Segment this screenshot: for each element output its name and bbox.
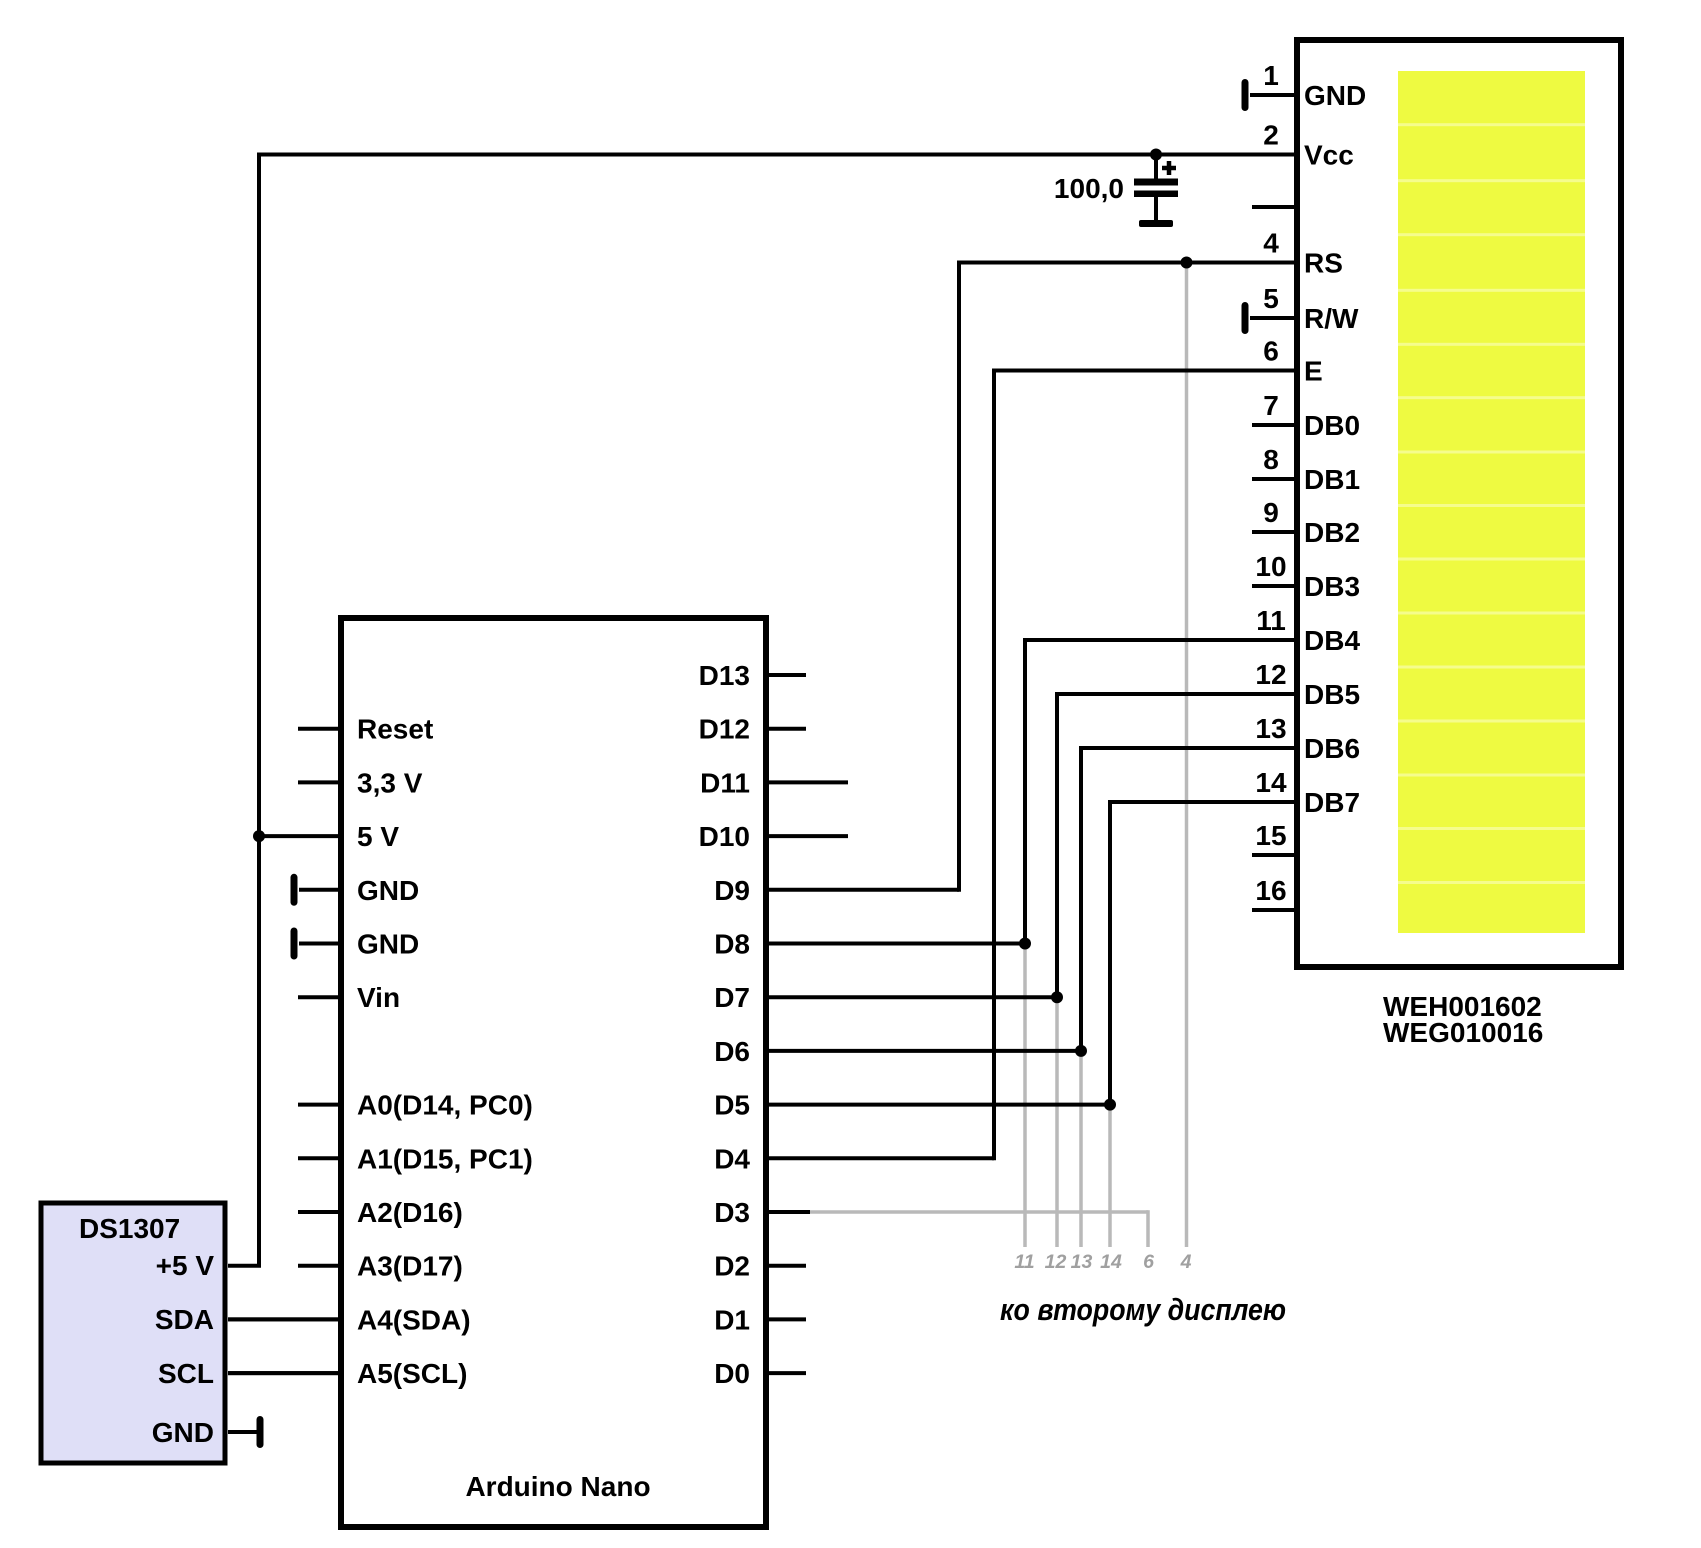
svg-text:2: 2 [1263, 120, 1279, 151]
svg-text:DB1: DB1 [1304, 464, 1360, 495]
pin 9 stub [1252, 530, 1296, 534]
svg-text:A5(SCL): A5(SCL) [357, 1358, 467, 1389]
wire gray vertical 12 [1055, 997, 1059, 1247]
pin 3,3 V stub [298, 780, 341, 784]
svg-text:5 V: 5 V [357, 821, 399, 852]
wire D8 vertical to DB4 [1023, 638, 1027, 944]
display module WEH001602 [1297, 40, 1621, 967]
wire D4 horizontal [769, 1156, 994, 1160]
pin 5 stub [1250, 316, 1296, 320]
svg-text:GND: GND [357, 929, 419, 960]
svg-text:D0: D0 [714, 1358, 750, 1389]
node D7 junction [1051, 991, 1063, 1003]
svg-text:D9: D9 [714, 875, 750, 906]
pin 15 stub [1252, 853, 1296, 857]
svg-text:D3: D3 [714, 1197, 750, 1228]
svg-text:DB3: DB3 [1304, 571, 1360, 602]
svg-text:DB4: DB4 [1304, 625, 1360, 656]
svg-text:D8: D8 [714, 929, 750, 960]
capacitor C1 bottom plate [1134, 191, 1178, 198]
svg-text:GND: GND [1304, 80, 1366, 111]
svg-text:D5: D5 [714, 1090, 750, 1121]
svg-text:A2(D16): A2(D16) [357, 1197, 463, 1228]
pin A2(D16) stub [298, 1210, 341, 1214]
node RS / second display 4 [1181, 257, 1193, 269]
node Vcc/C1 junction [1150, 149, 1162, 161]
wire D5 horizontal [769, 1103, 1110, 1107]
svg-text:6: 6 [1263, 336, 1279, 367]
wire +5V vertical rail [257, 153, 261, 1268]
svg-text:A4(SDA): A4(SDA) [357, 1304, 471, 1335]
svg-text:DB7: DB7 [1304, 787, 1360, 818]
svg-text:+5 V: +5 V [156, 1250, 215, 1281]
svg-text:D4: D4 [714, 1143, 750, 1174]
ground symbol Arduino GND [291, 928, 298, 960]
capacitor C1 negative lead [1154, 197, 1158, 221]
wire gray vertical 4 from RS node [1185, 263, 1189, 1248]
pin D1 stub [769, 1317, 806, 1321]
node D5 junction [1104, 1099, 1116, 1111]
wire D7 horizontal [769, 995, 1057, 999]
polarity plus sign [1162, 161, 1176, 175]
svg-text:SCL: SCL [158, 1358, 214, 1389]
svg-text:14: 14 [1255, 767, 1287, 798]
svg-text:SDA: SDA [155, 1304, 214, 1335]
svg-text:DB0: DB0 [1304, 410, 1360, 441]
svg-text:6: 6 [1143, 1251, 1154, 1273]
svg-text:DB5: DB5 [1304, 679, 1360, 710]
svg-text:Arduino Nano: Arduino Nano [465, 1471, 650, 1502]
wire D7 vertical to DB5 [1055, 692, 1059, 997]
capacitor C1 top plate [1134, 179, 1178, 186]
svg-text:D13: D13 [699, 660, 750, 691]
pin GND stub [299, 888, 341, 892]
svg-text:Vin: Vin [357, 982, 400, 1013]
ground symbol pin 1 [1242, 79, 1249, 111]
wire SDA [228, 1317, 341, 1321]
pin Vin stub [298, 995, 341, 999]
pin GND stub [299, 942, 341, 946]
wire DB4 horizontal into display [1025, 638, 1296, 642]
svg-text:9: 9 [1263, 497, 1279, 528]
wire D9 horizontal [769, 888, 959, 892]
wire D5 vertical to DB7 [1108, 800, 1112, 1105]
pin D12 stub [769, 727, 806, 731]
ground symbol pin 5 [1242, 302, 1249, 334]
wire D3 stub [769, 1210, 810, 1214]
ground symbol under C1 [1139, 220, 1173, 227]
svg-text:12: 12 [1045, 1251, 1067, 1273]
wire gray vertical 11 [1023, 944, 1027, 1248]
svg-text:Reset: Reset [357, 714, 433, 745]
svg-text:R/W: R/W [1304, 303, 1359, 334]
svg-text:DB2: DB2 [1304, 517, 1360, 548]
wire D9 vertical to RS [957, 261, 961, 892]
svg-text:Vcc: Vcc [1304, 140, 1354, 171]
pin 7 stub [1252, 423, 1296, 427]
svg-text:15: 15 [1255, 820, 1286, 851]
svg-text:5: 5 [1263, 283, 1279, 314]
svg-text:4: 4 [1263, 228, 1279, 259]
ground symbol Arduino GND [291, 874, 298, 906]
svg-text:D10: D10 [699, 821, 750, 852]
wire gray vertical 6 [1146, 1210, 1150, 1247]
svg-text:GND: GND [357, 875, 419, 906]
pin DS1307 GND stub [228, 1430, 258, 1434]
pin 5V wire [259, 834, 341, 838]
svg-text:DS1307: DS1307 [79, 1213, 180, 1244]
wire +5V horizontal to Vcc [257, 153, 1296, 157]
svg-text:ко второму дисплею: ко второму дисплею [1000, 1292, 1286, 1327]
svg-text:GND: GND [152, 1417, 214, 1448]
svg-text:7: 7 [1263, 390, 1279, 421]
svg-text:13: 13 [1071, 1251, 1093, 1273]
svg-text:3,3 V: 3,3 V [357, 767, 423, 798]
wire gray vertical 14 [1108, 1105, 1112, 1247]
wire SCL [228, 1371, 341, 1375]
pin D10 stub [769, 834, 848, 838]
pin A1(D15, PC1) stub [298, 1156, 341, 1160]
pin Reset stub [298, 727, 341, 731]
svg-text:14: 14 [1100, 1251, 1122, 1273]
svg-text:12: 12 [1255, 659, 1286, 690]
pin 1 stub [1250, 93, 1296, 97]
pin 8 stub [1252, 477, 1296, 481]
pin 16 stub [1252, 908, 1296, 912]
svg-text:1: 1 [1263, 60, 1279, 91]
wire DS1307 to A4(SDA) [228, 1317, 341, 1321]
wire E horizontal [994, 369, 1296, 373]
Arduino Nano module [341, 618, 766, 1527]
svg-text:10: 10 [1255, 551, 1286, 582]
wire D6 vertical to DB6 [1079, 746, 1083, 1051]
svg-text:A3(D17): A3(D17) [357, 1251, 463, 1282]
svg-text:11: 11 [1014, 1251, 1034, 1273]
node 5V tap at Arduino 5V pin [253, 830, 265, 842]
pin A0(D14, PC0) stub [298, 1103, 341, 1107]
node D8 junction [1019, 938, 1031, 950]
pin 3 stub [1252, 205, 1296, 209]
wire DB5 horizontal into display [1057, 692, 1296, 696]
svg-text:8: 8 [1263, 444, 1279, 475]
ground symbol DS1307 GND [257, 1416, 264, 1448]
svg-text:E: E [1304, 356, 1323, 387]
svg-text:RS: RS [1304, 248, 1343, 279]
pin D0 stub [769, 1371, 806, 1375]
wire D4 vertical to E [992, 369, 996, 1161]
capacitor C1 positive lead [1154, 155, 1158, 181]
wire DS1307 +5V to rail [228, 1264, 261, 1268]
svg-text:13: 13 [1255, 713, 1286, 744]
svg-text:D12: D12 [699, 714, 750, 745]
display segment row separators [1398, 123, 1585, 126]
svg-text:WEG010016: WEG010016 [1383, 1017, 1543, 1048]
wire DB6 horizontal into display [1081, 746, 1296, 750]
wire DB7 horizontal into display [1110, 800, 1296, 804]
wire D3 to second display E (gray) [808, 1210, 1148, 1214]
wire DS1307 to A5(SCL) [228, 1371, 341, 1375]
svg-text:D11: D11 [700, 767, 750, 798]
pin D2 stub [769, 1264, 806, 1268]
node D6 junction [1075, 1045, 1087, 1057]
wire D6 horizontal [769, 1049, 1081, 1053]
pin D13 stub [769, 673, 806, 677]
pin 10 stub [1252, 584, 1296, 588]
wire D8 horizontal [769, 942, 1025, 946]
svg-text:100,0: 100,0 [1054, 173, 1124, 204]
pin D11 stub [769, 780, 848, 784]
pin A3(D17) stub [298, 1264, 341, 1268]
svg-text:16: 16 [1255, 875, 1286, 906]
display active area (yellow) [1398, 71, 1585, 933]
svg-text:A1(D15, PC1): A1(D15, PC1) [357, 1143, 533, 1174]
svg-text:11: 11 [1256, 605, 1286, 636]
svg-text:D2: D2 [714, 1251, 750, 1282]
svg-text:4: 4 [1180, 1251, 1192, 1273]
svg-text:D7: D7 [714, 982, 750, 1013]
svg-text:DB6: DB6 [1304, 733, 1360, 764]
svg-text:D1: D1 [714, 1304, 750, 1335]
wire RS horizontal [959, 261, 1296, 265]
svg-text:A0(D14, PC0): A0(D14, PC0) [357, 1090, 533, 1121]
svg-text:D6: D6 [714, 1036, 750, 1067]
wire gray vertical 13 [1079, 1051, 1083, 1247]
DS1307 RTC module [41, 1203, 225, 1463]
